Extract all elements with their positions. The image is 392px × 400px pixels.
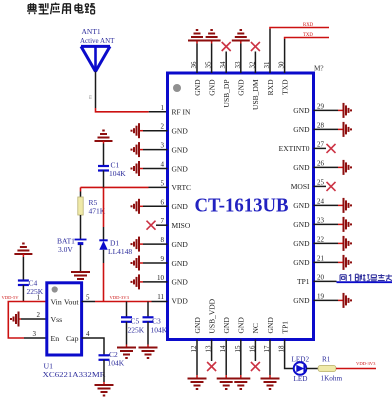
wire IC pin 6 to ground (143, 205, 168, 207)
wire U1 Cap pin to C2 (82, 338, 104, 355)
svg-text:GND: GND (293, 296, 310, 305)
wire D1 cathode stub (103, 227, 105, 240)
svg-text:MISO: MISO (172, 221, 191, 230)
svg-text:R1: R1 (322, 356, 331, 364)
wire IC pin 3 to ground (143, 149, 168, 151)
svg-text:GND: GND (293, 201, 310, 210)
wire IC pin 12 to bottom ground (196, 340, 198, 376)
svg-text:Cap: Cap (66, 334, 79, 343)
wire VDD net to C3 (147, 302, 149, 318)
svg-text:VRTC: VRTC (172, 183, 192, 192)
svg-text:19: 19 (317, 292, 325, 300)
svg-text:RXD: RXD (266, 79, 275, 95)
ground at IC pin 28 (343, 122, 345, 137)
svg-text:CT-1613UB: CT-1613UB (195, 195, 289, 217)
svg-text:GND: GND (293, 239, 310, 248)
capacitor C5 symbol (121, 316, 132, 318)
svg-text:28: 28 (317, 121, 325, 129)
wire antenna to RF IN (red elbow) (96, 108, 149, 112)
capacitor C3 symbol (143, 316, 154, 318)
ground at IC pin 29 (343, 103, 345, 118)
svg-text:25: 25 (317, 178, 325, 186)
IC pin 1 marker dot (173, 84, 181, 92)
ground at IC pin 8 (138, 237, 140, 252)
svg-text:3.0V: 3.0V (58, 245, 73, 254)
wire BAT1 to ground (80, 245, 82, 273)
wire U1 Vout stub (82, 301, 95, 303)
svg-text:TP1: TP1 (297, 277, 310, 286)
svg-text:22: 22 (317, 235, 325, 243)
svg-text:8: 8 (161, 236, 165, 244)
svg-text:GND: GND (293, 258, 310, 267)
svg-text:RF IN: RF IN (172, 108, 192, 117)
ground below C2 (95, 384, 114, 386)
svg-text:GND: GND (207, 79, 216, 96)
svg-text:XC6221A332MR: XC6221A332MR (43, 370, 107, 379)
wire D1 to VDD net (red) (103, 263, 105, 302)
no-connect X at pin 27 (327, 144, 336, 153)
wire IC pin 19 to ground (314, 299, 339, 301)
diode D1 symbol (99, 239, 107, 241)
ground below C5 (117, 347, 136, 349)
capacitor C2 symbol (99, 354, 110, 356)
svg-text:GND: GND (172, 202, 189, 211)
svg-text:Active ANT: Active ANT (80, 37, 115, 45)
ground at IC pin 14 (217, 378, 236, 380)
svg-text:1: 1 (37, 294, 41, 302)
wire LED to R1 (306, 368, 318, 370)
wire ground to C4 (22, 254, 24, 257)
resistor R5 body (78, 197, 83, 215)
svg-text:GND: GND (293, 125, 310, 134)
svg-text:NC: NC (251, 323, 260, 333)
ground at IC pin 6 (138, 199, 140, 214)
svg-text:GND: GND (293, 163, 310, 172)
svg-text:7: 7 (161, 217, 165, 225)
svg-text:GND: GND (193, 79, 202, 96)
svg-text:ANT1: ANT1 (82, 27, 101, 36)
ground at IC pin 15 (231, 378, 250, 380)
resistor R1 body (318, 365, 336, 371)
no-connect X at pin 16 (251, 362, 260, 371)
regulator U1 body (47, 283, 82, 355)
svg-text:GND: GND (237, 317, 246, 334)
ground (inverted) at IC pin 33 (232, 40, 250, 42)
wire IC pin 30 riser (284, 39, 286, 73)
wire IC pin 28 to ground (314, 128, 339, 130)
svg-text:LED: LED (294, 375, 308, 383)
wire ground to C1 (103, 141, 105, 144)
wire VRTC pin 5 stub (149, 186, 168, 188)
svg-text:5: 5 (161, 179, 165, 187)
wire TXD net (red) (285, 38, 329, 40)
wire IC pin 14 to bottom ground (225, 340, 227, 376)
LED LED2 symbol (294, 362, 307, 375)
svg-text:VDD-3V3: VDD-3V3 (356, 361, 376, 366)
svg-text:m: m (89, 95, 94, 99)
wire IC pin 31 riser (269, 29, 271, 73)
wire VRTC corner to R5 (80, 187, 82, 191)
svg-text:Vss: Vss (51, 315, 63, 324)
svg-text:GND: GND (237, 79, 246, 96)
svg-text:MOSI: MOSI (291, 182, 310, 191)
svg-text:GND: GND (172, 164, 189, 173)
ground at IC pin 4 (138, 161, 140, 176)
wire IC pin 16 stub (254, 340, 256, 362)
svg-text:GND: GND (172, 145, 189, 154)
wire IC pin 15 to bottom ground (240, 340, 242, 376)
svg-text:C3: C3 (152, 317, 161, 326)
no-connect X at pin 34 (222, 42, 231, 51)
svg-text:VDD-3V3: VDD-3V3 (110, 295, 130, 300)
ground at IC pin 2 (138, 123, 140, 138)
wire IC pin 29 to ground (314, 109, 339, 111)
wire IC pin 35 to top ground (211, 44, 213, 74)
svg-text:En: En (51, 334, 60, 343)
antenna ANT1 symbol (81, 45, 110, 48)
wire U1 Vss to ground (21, 318, 47, 320)
svg-text:GND: GND (266, 317, 275, 334)
svg-text:104K: 104K (109, 169, 126, 178)
note 同18脚功能一致 at pin 20 (339, 275, 341, 281)
wire C2 to ground (103, 360, 105, 382)
wire IC pin 25 stub (314, 185, 327, 187)
battery BAT1 symbol (75, 239, 87, 241)
svg-text:VDD: VDD (172, 297, 189, 306)
svg-text:29: 29 (317, 102, 325, 110)
wire IC pin 8 to ground (143, 243, 168, 245)
svg-text:GND: GND (172, 278, 189, 287)
wire IC pin 2 to ground (143, 130, 168, 132)
svg-text:EXTINT0: EXTINT0 (279, 144, 310, 153)
svg-text:USB_DP: USB_DP (222, 80, 231, 108)
no-connect X at pin 32 (251, 42, 260, 51)
svg-text:TXD: TXD (303, 33, 313, 38)
svg-text:10: 10 (157, 274, 165, 282)
svg-text:1: 1 (161, 104, 165, 112)
wire IC pin 9 to ground (143, 262, 168, 264)
U1 pin 1 marker dot (52, 286, 58, 292)
ground (inverted) above C1 (95, 140, 113, 142)
ground (inverted) at IC pin 35 (203, 40, 221, 42)
no-connect X at pin 13 (207, 362, 216, 371)
svg-text:Vout: Vout (64, 298, 79, 307)
no-connect X at pin 7 (147, 221, 156, 230)
svg-text:6: 6 (161, 198, 165, 206)
wire IC pin 23 to ground (314, 223, 339, 225)
wire IC pin 27 stub (314, 147, 327, 149)
svg-text:GND: GND (293, 220, 310, 229)
no-connect X at pin 25 (327, 182, 336, 191)
wire antenna to RF IN (vertical) (95, 72, 97, 109)
wire RF IN pin 1 stub (149, 111, 168, 113)
svg-text:M?: M? (314, 65, 324, 73)
svg-text:2: 2 (37, 311, 41, 319)
svg-text:2: 2 (161, 123, 165, 131)
wire IC pin 34 stub (225, 52, 227, 74)
wire IC pin 36 to top ground (196, 44, 198, 74)
wire C5 to ground (126, 322, 128, 345)
ground at IC pin 19 (343, 293, 345, 308)
ground at IC pin 22 (343, 236, 345, 251)
wire IC pin 26 to ground (314, 166, 339, 168)
svg-text:104K: 104K (108, 359, 125, 368)
svg-text:C5: C5 (131, 317, 140, 326)
ground (inverted) above C4 (14, 253, 32, 255)
ground at U1 Vss (18, 312, 20, 327)
wire IC pin 13 stub (211, 340, 213, 362)
ground (inverted) at IC pin 36 (188, 40, 206, 42)
svg-text:GND: GND (172, 240, 189, 249)
svg-text:26: 26 (317, 159, 325, 167)
wire C1 to VRTC net (103, 171, 105, 188)
wire VDD pin 11 stub (152, 301, 168, 303)
svg-text:USB_DM: USB_DM (251, 79, 260, 110)
svg-text:24: 24 (317, 197, 325, 205)
svg-text:104K: 104K (151, 326, 168, 335)
wire IC pin 32 stub (254, 52, 256, 74)
svg-text:GND: GND (222, 317, 231, 334)
ground at IC pin 17 (261, 378, 280, 380)
wire TP1 net (blue) with note (337, 281, 392, 283)
svg-text:USB_VDD: USB_VDD (207, 298, 216, 333)
ground at IC pin 26 (343, 160, 345, 175)
wire En stub (24, 337, 47, 339)
wire C4 to Vin net (22, 285, 24, 302)
wire R5 to BAT1 (80, 215, 82, 240)
svg-text:Vin: Vin (51, 298, 62, 307)
wire IC pin 7 MISO stub (156, 224, 168, 226)
svg-text:20: 20 (317, 273, 325, 281)
wire VRTC to D1 (red) (103, 187, 105, 227)
ground at IC pin 3 (138, 142, 140, 157)
svg-text:27: 27 (317, 140, 325, 148)
wire IC pin 24 to ground (314, 204, 339, 206)
wire IC pin 10 to ground (143, 281, 168, 283)
svg-text:VDD-5V: VDD-5V (2, 295, 20, 300)
svg-text:GND: GND (193, 317, 202, 334)
svg-text:23: 23 (317, 216, 325, 224)
ground at IC pin 24 (343, 198, 345, 213)
wire VDD-5V to U1 Vin (red) (8, 301, 47, 303)
wire VDD net (pin 11 horizontal) (95, 301, 152, 303)
svg-text:4: 4 (161, 161, 165, 169)
svg-text:GND: GND (172, 127, 189, 136)
wire IC pin 4 to ground (143, 168, 168, 170)
wire IC pin 22 to ground (314, 242, 339, 244)
capacitor C4 symbol (18, 279, 29, 281)
svg-text:LL4148: LL4148 (108, 247, 132, 256)
svg-text:21: 21 (317, 254, 325, 262)
ground below C3 (139, 347, 158, 349)
svg-text:GND: GND (172, 259, 189, 268)
wire IC pin 20 TP1 stub (314, 280, 337, 282)
svg-text:TP1: TP1 (280, 321, 289, 334)
svg-text:4: 4 (86, 330, 90, 338)
ground at IC pin 10 (138, 274, 140, 289)
svg-text:5: 5 (86, 294, 90, 302)
ground at IC pin 12 (188, 378, 207, 380)
svg-text:TXD: TXD (280, 79, 289, 95)
wire R1 to VDD-3V3 (red) (336, 368, 376, 370)
svg-text:3: 3 (33, 330, 37, 338)
wire VDD net to C5 (126, 302, 128, 318)
wire IC pin 33 to top ground (240, 44, 242, 74)
wire IC pin 17 to bottom ground (269, 340, 271, 376)
capacitor C1 symbol (98, 165, 109, 167)
wire RXD net (red) (270, 28, 329, 30)
wire VRTC net (pin 5 horizontal) (81, 186, 149, 188)
wire D1 anode stub (103, 250, 105, 263)
svg-text:RXD: RXD (303, 23, 314, 28)
wire IC pin 18 to LED (285, 340, 294, 369)
svg-text:9: 9 (161, 255, 165, 263)
wire IC pin 21 to ground (314, 261, 339, 263)
svg-text:1Kohm: 1Kohm (321, 375, 343, 383)
ground at IC pin 9 (138, 256, 140, 271)
title 典型应用电路 (typical application circuit) (28, 4, 36, 6)
svg-text:225K: 225K (128, 326, 145, 335)
wire Vin to En (red) (8, 302, 24, 339)
ground at IC pin 23 (343, 217, 345, 232)
ground at IC pin 21 (343, 255, 345, 270)
svg-text:GND: GND (293, 106, 310, 115)
svg-text:225K: 225K (27, 287, 44, 296)
svg-text:3: 3 (161, 142, 165, 150)
svg-text:11: 11 (157, 293, 164, 301)
ground below BAT1 (71, 271, 90, 273)
wire C3 to ground (147, 322, 149, 345)
IC M? CT-1613UB body (168, 73, 314, 340)
